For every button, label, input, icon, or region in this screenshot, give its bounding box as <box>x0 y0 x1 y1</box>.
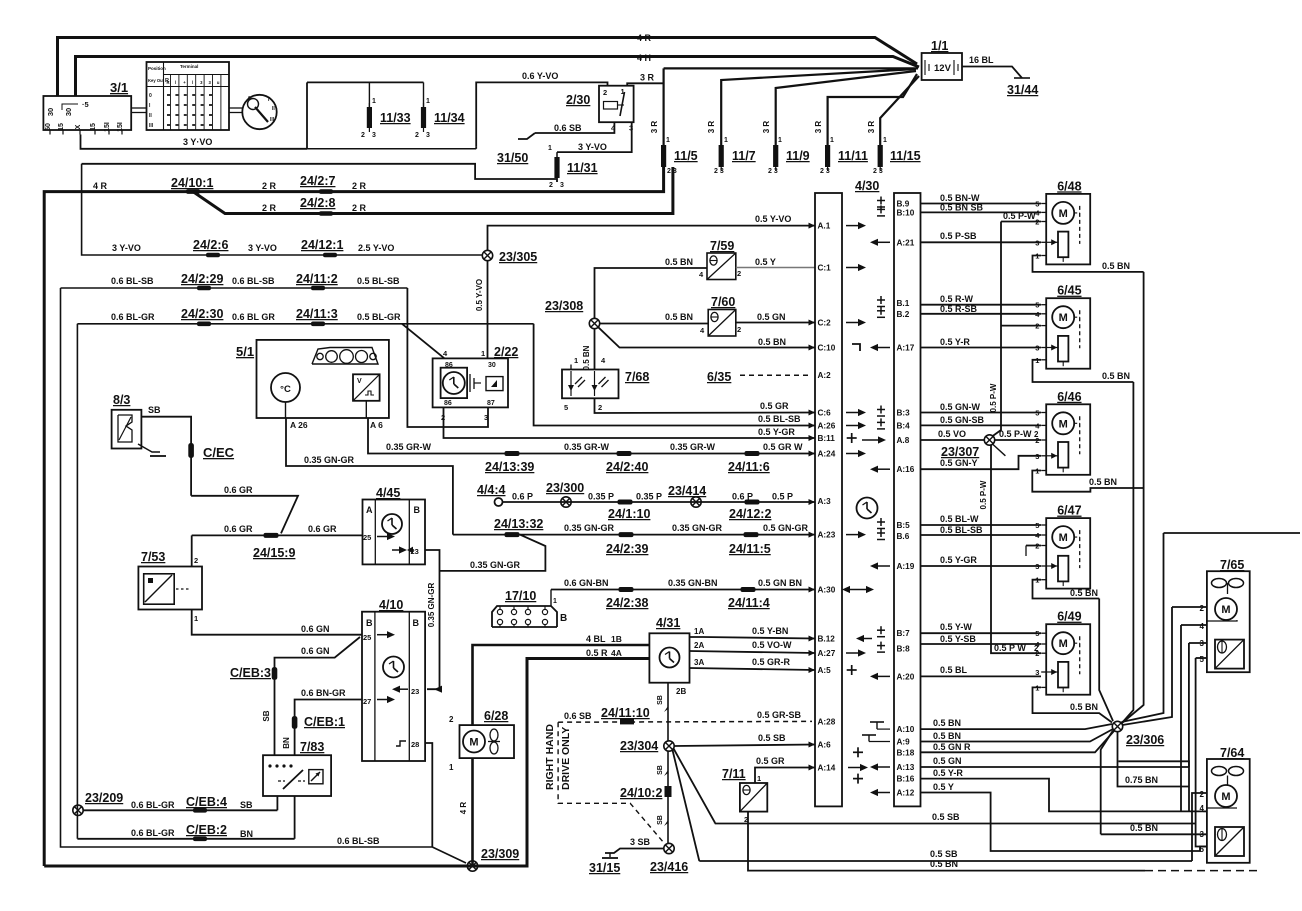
wire 23/306 ray to 7/65 pin2 riser <box>1123 607 1173 725</box>
4/30 A30 double arrow <box>842 586 874 593</box>
svg-text:2B: 2B <box>676 687 686 696</box>
wire row 0.6BL-GR y324 <box>77 323 533 325</box>
BN bus right vertical <box>1122 272 1144 723</box>
wire 6/46 pin1 loop <box>1032 471 1143 492</box>
svg-text:0.5 GR-SB: 0.5 GR-SB <box>757 710 802 720</box>
svg-text:0.5 VO: 0.5 VO <box>938 429 966 439</box>
relay 2/22 box <box>433 358 508 407</box>
wire 1A to B12 <box>690 637 816 639</box>
svg-text:1: 1 <box>372 98 376 105</box>
wire A8 row VO <box>921 439 985 441</box>
wire 23/306 ray up right <box>1122 533 1164 722</box>
svg-text:24/13:39: 24/13:39 <box>485 460 534 474</box>
svg-text:B.9: B.9 <box>897 200 910 209</box>
svg-text:24/11:4: 24/11:4 <box>728 596 770 610</box>
svg-text:0.5 Y-R: 0.5 Y-R <box>933 768 963 778</box>
link lines table to key <box>229 107 243 109</box>
wire long top right <box>1164 532 1301 534</box>
svg-text:0.5 VO-W: 0.5 VO-W <box>752 640 792 650</box>
BN from 6/47 down to 23/306 <box>1099 599 1113 722</box>
wire 3SB to ground 31/15 <box>605 849 664 854</box>
svg-text:DRIVE ONLY: DRIVE ONLY <box>560 727 572 790</box>
wire 2B to 23/416 <box>667 751 669 843</box>
junction 23/307 <box>984 435 994 445</box>
6/49 resistor <box>1058 662 1068 688</box>
svg-text:16 BL: 16 BL <box>969 55 994 65</box>
svg-text:24/1:10: 24/1:10 <box>608 507 650 521</box>
svg-text:A:21: A:21 <box>897 238 915 247</box>
4/30 left box entry arrowheads <box>809 223 816 229</box>
svg-text:0.5 BN: 0.5 BN <box>665 257 693 267</box>
svg-text:0.5 BL-SB: 0.5 BL-SB <box>357 276 400 286</box>
svg-text:0.5 GN-W: 0.5 GN-W <box>940 402 981 412</box>
svg-text:24/2:29: 24/2:29 <box>181 272 223 286</box>
wire B7 row <box>921 632 1042 634</box>
svg-text:23/309: 23/309 <box>481 847 519 861</box>
svg-text:23/416: 23/416 <box>650 860 688 874</box>
svg-text:Key Out: Key Out <box>148 78 165 83</box>
svg-text:0.5 GR W: 0.5 GR W <box>763 442 803 452</box>
fan unit 7/64 box <box>1207 759 1250 863</box>
6/45 pin3 internal link <box>1046 347 1058 349</box>
4/10 pin28 hook <box>396 741 406 746</box>
wire BN down to 7/83 <box>294 729 296 755</box>
6/46 motor <box>1052 412 1074 434</box>
relay 4/10 box <box>362 612 425 761</box>
wire 23/308 diag to C10 row <box>598 327 815 347</box>
wire row 0.6BL-SB y288 <box>61 287 408 289</box>
6/47 dashed link <box>1079 530 1081 568</box>
wire 0.6GR row to 4/45 <box>192 534 363 536</box>
svg-text:2 R: 2 R <box>262 181 277 191</box>
svg-text:6/48: 6/48 <box>1057 179 1081 193</box>
svg-text:17/10: 17/10 <box>505 589 536 603</box>
6/48 dashed link <box>1079 206 1081 244</box>
svg-text:l: l <box>175 80 176 85</box>
6/48 pin3 internal link <box>1046 241 1058 243</box>
7/64 thermo box <box>1215 827 1244 856</box>
svg-text:11/11: 11/11 <box>838 149 868 163</box>
control module 4/30 left box <box>815 193 842 806</box>
svg-text:31/50: 31/50 <box>497 151 528 165</box>
7/83 bottom pins <box>276 796 278 810</box>
svg-text:6/45: 6/45 <box>1057 284 1081 298</box>
fuse top bus 11/33 11/34 <box>307 81 424 83</box>
svg-text:24/12:2: 24/12:2 <box>729 507 771 521</box>
blower motor 6/28 box <box>460 725 515 758</box>
svg-text:A:27: A:27 <box>818 649 836 658</box>
svg-text:A:10: A:10 <box>897 725 915 734</box>
wire 0.6GR run <box>191 496 298 534</box>
svg-text:M: M <box>1221 791 1230 803</box>
svg-text:2: 2 <box>1200 790 1205 799</box>
4/30 plus B11 A8 <box>847 433 857 443</box>
wire 6/49 pin1 BN loop <box>1033 687 1113 722</box>
svg-text:30: 30 <box>64 108 73 116</box>
svg-text:7/64: 7/64 <box>1220 746 1244 760</box>
svg-text:0.5 BN: 0.5 BN <box>1070 588 1098 598</box>
wire 6/45 pin2 PW stub <box>1001 325 1041 327</box>
timer 4/31 box <box>649 633 689 682</box>
svg-text:A:30: A:30 <box>818 586 836 595</box>
svg-text:24/11:2: 24/11:2 <box>296 272 338 286</box>
svg-text:86: 86 <box>444 400 452 407</box>
fuse 11/31 <box>556 152 558 157</box>
5/1 internal pin stubs <box>285 402 287 418</box>
instrument cluster 5/1 box <box>257 340 389 418</box>
svg-text:A:24: A:24 <box>818 450 836 459</box>
svg-text:0.5 SB: 0.5 SB <box>758 733 786 743</box>
svg-text:l: l <box>192 80 193 85</box>
wire B6 row <box>921 534 1042 536</box>
svg-text:1: 1 <box>553 598 557 605</box>
svg-text:A:3: A:3 <box>818 497 832 506</box>
wire row B 2R thick <box>193 167 673 214</box>
svg-text:C/EB:2: C/EB:2 <box>186 823 227 837</box>
wire 4/10 pin28 to 23/309 <box>425 743 432 847</box>
svg-text:A:13: A:13 <box>897 763 915 772</box>
svg-text:3 R: 3 R <box>707 121 716 134</box>
svg-text:15: 15 <box>90 123 97 131</box>
wire 16BL to ground 31/44 <box>962 67 1022 79</box>
7/68 lamp symbols <box>570 371 572 396</box>
wire 23/308 to 7/60 <box>600 323 709 325</box>
svg-text:0.5 GN R: 0.5 GN R <box>933 742 971 752</box>
svg-text:A:16: A:16 <box>897 465 915 474</box>
connector 4/4:4 <box>495 498 503 506</box>
svg-text:0.6 BL-SB: 0.6 BL-SB <box>337 836 380 846</box>
junction 23/305 <box>482 250 492 260</box>
svg-text:24/10:1: 24/10:1 <box>171 176 213 190</box>
svg-text:0.5 Y-W: 0.5 Y-W <box>940 622 972 632</box>
svg-text:7/65: 7/65 <box>1220 558 1244 572</box>
svg-text:V: V <box>357 378 362 385</box>
svg-text:1A: 1A <box>694 627 704 636</box>
svg-text:3 Y·VO: 3 Y·VO <box>183 137 212 147</box>
wire A17 row <box>921 347 1042 349</box>
svg-text:24/13:32: 24/13:32 <box>494 517 543 531</box>
svg-text:SB: SB <box>262 710 271 721</box>
fan unit 7/65 box <box>1207 571 1250 672</box>
wire 4R top feed <box>58 38 918 97</box>
arrow into 4/10 pin23 <box>434 686 442 693</box>
svg-text:0.35 GN-GR: 0.35 GN-GR <box>564 523 615 533</box>
svg-text:0.5 BN: 0.5 BN <box>1130 823 1158 833</box>
wire 8/3 to C/EC <box>141 417 191 496</box>
svg-text:M: M <box>1059 418 1068 430</box>
svg-text:24/2:8: 24/2:8 <box>300 196 335 210</box>
svg-text:BN: BN <box>240 829 253 839</box>
wire BN row pin3 7/64 <box>1101 833 1207 835</box>
fuse 11/15 <box>880 76 919 145</box>
svg-text:0.5 BN: 0.5 BN <box>758 337 786 347</box>
2/30 pin4 wire 0.6SB to 31/50 <box>535 122 614 133</box>
svg-text:A:6: A:6 <box>818 741 832 750</box>
svg-text:28: 28 <box>411 740 419 749</box>
svg-text:2 3: 2 3 <box>820 168 830 175</box>
svg-text:B: B <box>413 618 420 628</box>
svg-text:A.8: A.8 <box>897 436 910 445</box>
svg-text:0.5 Y-VO: 0.5 Y-VO <box>755 214 791 224</box>
svg-text:0.5 P-W: 0.5 P-W <box>979 480 988 509</box>
svg-text:0.5 P-SB: 0.5 P-SB <box>940 231 977 241</box>
switch 7/83 box <box>263 755 331 796</box>
svg-text:2/30: 2/30 <box>566 93 590 107</box>
wire 0.6GN branch to CEB3 <box>275 637 361 667</box>
svg-text:2: 2 <box>737 269 741 278</box>
svg-text:0.6 GN: 0.6 GN <box>301 646 330 656</box>
svg-text:2: 2 <box>598 403 602 412</box>
svg-text:0.5 GN: 0.5 GN <box>933 756 962 766</box>
svg-text:4/30: 4/30 <box>855 179 879 193</box>
svg-text:24/12:1: 24/12:1 <box>301 238 343 252</box>
4/30 plus-minus symbols <box>877 197 885 208</box>
svg-text:8/3: 8/3 <box>113 393 130 407</box>
svg-text:3A: 3A <box>694 658 704 667</box>
svg-text:SB: SB <box>657 815 664 825</box>
svg-text:24/11:3: 24/11:3 <box>296 307 338 321</box>
svg-text:1: 1 <box>481 349 485 358</box>
6/47 pin3 internal link <box>1046 565 1058 567</box>
6/49 motor <box>1052 632 1074 654</box>
svg-text:0.5 Y-BN: 0.5 Y-BN <box>752 626 788 636</box>
17/10 pin1 riser <box>550 590 552 607</box>
svg-text:24/11:10: 24/11:10 <box>601 706 650 720</box>
svg-text:0.6 P: 0.6 P <box>512 492 533 502</box>
svg-text:2: 2 <box>1200 604 1205 613</box>
svg-text:1: 1 <box>194 614 198 623</box>
svg-text:0.5 BL-SB: 0.5 BL-SB <box>940 525 983 535</box>
svg-text:31/15: 31/15 <box>589 861 620 875</box>
svg-text:11/31: 11/31 <box>567 161 598 175</box>
svg-text:0.5 BN: 0.5 BN <box>1102 261 1130 271</box>
link lines 3/1 to table <box>131 107 146 109</box>
svg-text:3/1: 3/1 <box>110 80 128 95</box>
svg-text:0.5 Y-SB: 0.5 Y-SB <box>940 634 976 644</box>
wire SB row1 y823 <box>715 823 1196 825</box>
wire BLSB diagonal to 23/309 <box>432 847 466 863</box>
junction 23/209 <box>73 805 83 815</box>
wire BLGR diagonal to 2/22 pin4 <box>402 324 445 359</box>
svg-text:B: B <box>414 505 421 515</box>
voltage box symbol <box>353 374 380 401</box>
svg-text:7/83: 7/83 <box>300 740 324 754</box>
svg-text:31/44: 31/44 <box>1007 83 1038 97</box>
svg-text:0.5 P: 0.5 P <box>772 492 793 502</box>
svg-text:0.35 GN-GR: 0.35 GN-GR <box>672 523 723 533</box>
4/30 B12 arrow left <box>856 635 872 642</box>
relay 2/30 box <box>599 86 634 123</box>
6/46 pin3 internal link <box>1046 455 1058 457</box>
wire 0.6YVO link from 3YVO line <box>307 148 476 150</box>
wire 7/53 pin2 riser <box>191 535 193 566</box>
wire A3 row 0.5P <box>503 501 816 503</box>
svg-text:0.5 BN: 0.5 BN <box>933 731 961 741</box>
svg-text:0.5 BN-W: 0.5 BN-W <box>940 193 980 203</box>
svg-text:5: 5 <box>564 403 568 412</box>
fuse 11/9 <box>776 71 916 145</box>
PW net vertical <box>992 222 1001 437</box>
7/65 pin wires <box>1172 606 1207 608</box>
svg-text:0.6 BL-GR: 0.6 BL-GR <box>131 828 175 838</box>
svg-text:·5: ·5 <box>82 100 89 109</box>
6/48 pin ticks and numbers <box>1041 203 1046 205</box>
wire pin5 7/64 <box>1196 824 1207 847</box>
svg-text:0.5 P-W: 0.5 P-W <box>1003 211 1036 221</box>
svg-text:SB: SB <box>240 800 253 810</box>
wire SB down to 7/83 <box>274 680 276 755</box>
svg-text:86: 86 <box>445 362 453 369</box>
battery 1/1 box <box>922 53 962 80</box>
svg-text:0.6 BL-GR: 0.6 BL-GR <box>111 312 155 322</box>
svg-text:0.5 Y: 0.5 Y <box>755 257 776 267</box>
svg-text:0.35 GR-W: 0.35 GR-W <box>386 442 432 452</box>
7/68 pins <box>570 365 572 370</box>
svg-text:2: 2 <box>194 556 198 565</box>
junction 23/306 star <box>1112 721 1122 731</box>
svg-text:0.5 GR: 0.5 GR <box>756 756 785 766</box>
svg-text:27: 27 <box>363 697 371 706</box>
svg-text:2: 2 <box>603 88 607 97</box>
svg-text:M: M <box>1059 208 1068 220</box>
wire BLSB drop to 2/22 pin3 <box>407 288 488 427</box>
fuse 11/11 <box>828 74 917 145</box>
wire A6 row SB <box>674 745 815 747</box>
6/48 motor <box>1052 202 1074 224</box>
wire bus to battery y68 <box>664 67 918 69</box>
lamp unit 7/68 box <box>562 370 619 399</box>
4/30 plus A5 <box>847 665 857 675</box>
wire A20 row <box>921 675 1042 677</box>
svg-text:1B: 1B <box>611 634 622 644</box>
svg-text:M: M <box>1059 638 1068 650</box>
svg-text:SB: SB <box>657 695 664 705</box>
svg-text:2 3: 2 3 <box>768 168 778 175</box>
wire A21 row to 6/48 pin3 <box>921 241 1042 243</box>
svg-text:0.35 GN-GR: 0.35 GN-GR <box>304 455 355 465</box>
svg-text:24/11:5: 24/11:5 <box>729 542 771 556</box>
svg-text:2: 2 <box>1034 644 1039 653</box>
cluster gauge icon <box>312 348 378 365</box>
fuse 11/5 with riser 3R <box>662 68 664 145</box>
pressure sensor 7/53 box <box>138 567 202 610</box>
svg-text:24/2:38: 24/2:38 <box>606 596 648 610</box>
wire A23 row GNGR <box>453 534 815 536</box>
wire 2A to A27 <box>690 651 816 653</box>
svg-text:u: u <box>217 80 220 85</box>
svg-text:0.5 BL-GR: 0.5 BL-GR <box>357 312 401 322</box>
svg-text:11/34: 11/34 <box>434 111 465 125</box>
4/30 circle symbol mid <box>857 498 878 519</box>
svg-text:0.5 GN-SB: 0.5 GN-SB <box>940 415 985 425</box>
thermo switch 7/60 <box>708 310 736 337</box>
6/47 motor <box>1052 526 1074 548</box>
svg-text:R: R <box>167 80 170 85</box>
riser x307 fuse bus <box>306 82 308 148</box>
svg-text:0.5 Y-R: 0.5 Y-R <box>940 337 970 347</box>
temp gauge circle <box>271 373 300 402</box>
4/30 gap arrows left <box>870 239 890 246</box>
svg-text:2A: 2A <box>694 641 704 650</box>
075BN loop box <box>1118 732 1190 787</box>
svg-text:6/35: 6/35 <box>707 370 731 384</box>
PW vertical below 23/307 <box>991 445 1041 653</box>
blower 6/28 riser 4R <box>471 758 474 866</box>
2/22 contact part <box>469 374 471 392</box>
connector 24/15:9 <box>264 533 279 538</box>
wire 7/68 pin2 to C6 row <box>595 398 816 413</box>
4/30 plus B18 B16 <box>853 747 863 757</box>
6/46 pin ticks and numbers <box>1041 412 1046 414</box>
wire B3 row <box>921 412 1042 414</box>
svg-text:1: 1 <box>883 137 887 144</box>
svg-text:0.5 BN: 0.5 BN <box>1070 702 1098 712</box>
svg-text:7/68: 7/68 <box>625 370 649 384</box>
svg-text:4: 4 <box>1200 622 1205 631</box>
svg-text:0.75 BN: 0.75 BN <box>1125 775 1158 785</box>
svg-text:23/414: 23/414 <box>668 484 706 498</box>
svg-text:0.5 GR: 0.5 GR <box>760 401 789 411</box>
svg-text:25: 25 <box>363 633 371 642</box>
bottom frame thick 4R <box>44 659 649 867</box>
wire 6/48 pin1 BN loop <box>1033 256 1144 272</box>
svg-text:23/209: 23/209 <box>85 791 123 805</box>
svg-text:0.5 BL-SB: 0.5 BL-SB <box>758 414 801 424</box>
svg-text:3 R: 3 R <box>867 121 876 134</box>
wire B16 Y-R to 0.75BN loop <box>921 779 1204 812</box>
svg-text:24/2:40: 24/2:40 <box>606 460 648 474</box>
svg-text:0.5 P W: 0.5 P W <box>994 643 1026 653</box>
svg-text:11/9: 11/9 <box>786 149 810 163</box>
thermo switch 7/59 <box>707 253 736 280</box>
svg-text:A.1: A.1 <box>818 222 831 231</box>
key cylinder symbol <box>242 95 276 129</box>
svg-text:0.6 SB: 0.6 SB <box>564 711 592 721</box>
svg-text:4 H: 4 H <box>637 53 651 63</box>
6/48 resistor <box>1058 232 1068 258</box>
left vertical BLGR to 23/209 <box>76 324 78 839</box>
svg-text:0.5 BL-W: 0.5 BL-W <box>940 514 979 524</box>
wire 23/306 ray to pin3 7/64 riser <box>1101 731 1113 835</box>
svg-text:87: 87 <box>487 400 495 407</box>
svg-text:A:19: A:19 <box>897 562 915 571</box>
svg-text:M: M <box>1059 532 1068 544</box>
svg-text:0.6 BL-SB: 0.6 BL-SB <box>111 276 154 286</box>
6/45 dashed link <box>1079 310 1081 348</box>
svg-text:RIGHT HAND: RIGHT HAND <box>544 724 556 790</box>
dashed right hand drive box <box>558 722 664 843</box>
wire 7/11 pin2 to BN bottom row <box>748 812 1145 871</box>
svg-text:2 R: 2 R <box>262 203 277 213</box>
23/304 diag to SB row <box>673 750 700 861</box>
svg-text:0.5 BN: 0.5 BN <box>1089 477 1117 487</box>
svg-text:1: 1 <box>830 137 834 144</box>
svg-text:2: 2 <box>449 715 454 724</box>
wire A12 row Y <box>921 793 1204 852</box>
junction 23/308 <box>589 318 599 328</box>
svg-text:0.5 GN-GR: 0.5 GN-GR <box>763 523 809 533</box>
svg-text:4 R: 4 R <box>459 802 468 815</box>
wire A10 row to 23/306 <box>921 724 1113 729</box>
6/46 dashed link <box>1079 416 1081 454</box>
fuse 11/7 <box>721 69 916 145</box>
7/65 motor circle <box>1215 598 1237 620</box>
svg-text:0: 0 <box>248 96 251 102</box>
wire 11/31 bottom return loop <box>82 164 557 182</box>
svg-text:0.6 BL GR: 0.6 BL GR <box>232 312 275 322</box>
svg-text:6/47: 6/47 <box>1057 504 1081 518</box>
svg-text:B:11: B:11 <box>818 434 836 443</box>
